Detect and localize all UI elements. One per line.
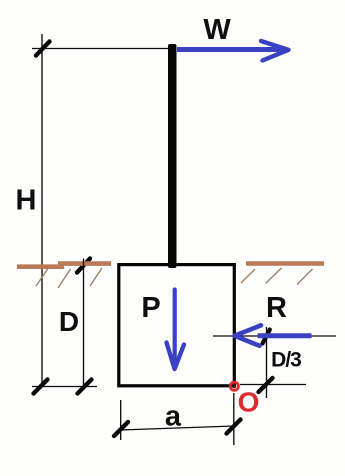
tick mark at D/3 bottom xyxy=(259,378,273,392)
extension line a right (vertical) xyxy=(233,393,235,445)
tick mark at a right xyxy=(227,420,241,434)
pivot point marker O (red circle) xyxy=(230,382,238,390)
svg-text:D: D xyxy=(59,306,79,337)
svg-text:D/3: D/3 xyxy=(271,349,301,372)
svg-text:P: P xyxy=(141,292,160,324)
svg-text:O: O xyxy=(238,387,260,418)
ground line left segment a xyxy=(17,264,64,269)
dimension line a xyxy=(120,426,234,430)
dimension line D/3 (vertical) xyxy=(266,327,268,398)
force arrow P (blue, pointing down) xyxy=(167,290,185,370)
tick mark at D/3 top xyxy=(263,330,270,344)
foundation block xyxy=(119,265,235,386)
ground hatch marks left xyxy=(36,268,102,288)
ground line left segment b xyxy=(58,261,111,266)
svg-text:W: W xyxy=(203,14,231,46)
ground line right segment xyxy=(246,261,324,265)
ground hatch marks right xyxy=(241,268,313,285)
svg-text:R: R xyxy=(266,292,287,324)
force arrow W (blue, pointing right) xyxy=(177,41,289,61)
dimension line D (vertical) xyxy=(83,259,85,388)
extension line at R level (horizontal) xyxy=(213,335,336,337)
tick mark at base of D line xyxy=(78,380,92,394)
dimension line H (vertical) xyxy=(41,34,43,387)
tick mark at D top (ground level, under ground line) xyxy=(77,259,90,273)
dimension extension line top (W level) xyxy=(32,48,169,50)
force arrow R (blue, pointing left) xyxy=(235,325,312,346)
pivot point center dot xyxy=(232,384,236,388)
svg-text:a: a xyxy=(165,401,182,433)
extension line a left (vertical) xyxy=(120,400,122,440)
tick mark at a left xyxy=(114,422,128,436)
tick mark at H top xyxy=(36,42,50,56)
tick mark at base of H line xyxy=(34,380,48,394)
extension line at footing base (left) xyxy=(32,386,97,388)
extension line at footing base (right) xyxy=(240,384,306,386)
pole (mast) xyxy=(168,44,177,268)
svg-text:H: H xyxy=(16,185,37,217)
